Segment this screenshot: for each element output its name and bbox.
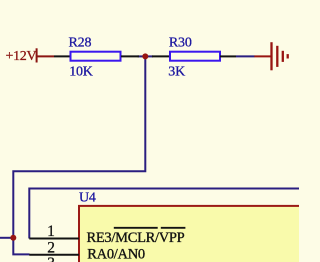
svg-text:RE3/MCLR/VPP: RE3/MCLR/VPP — [87, 230, 185, 246]
overline MCLR — [114, 227, 158, 229]
ground bar 2 — [276, 46, 278, 67]
resistor R28 left pin — [54, 55, 71, 57]
IC pin 2 line — [29, 254, 79, 256]
svg-text:R30: R30 — [169, 35, 192, 50]
resistor R30 right pin — [220, 55, 236, 57]
junction dot top — [142, 53, 148, 59]
junction dot left — [10, 235, 16, 241]
resistor R30 body — [170, 52, 220, 61]
power port lead — [37, 55, 54, 57]
svg-text:3: 3 — [47, 255, 55, 262]
wire from junction down-left to pin 2 — [13, 56, 145, 254]
svg-text:RA0/AN0: RA0/AN0 — [87, 246, 145, 262]
svg-text:+12V: +12V — [6, 49, 37, 64]
wire R30 to ground — [236, 55, 255, 57]
svg-text:U4: U4 — [79, 191, 96, 206]
IC pin 1 line — [29, 238, 79, 240]
IC U4 body — [79, 206, 301, 262]
svg-text:10K: 10K — [69, 64, 93, 79]
wire to pin 1 (horizontal rail to right edge, drop at x=29) — [28, 189, 299, 239]
overline VPP — [161, 227, 186, 229]
svg-text:1: 1 — [47, 223, 55, 240]
wire segment at top junction — [138, 55, 154, 57]
ground bar 1 — [270, 42, 272, 70]
wire from left edge to junction node — [0, 237, 13, 239]
resistor R28 right pin — [121, 55, 139, 57]
ground bar 4 — [287, 54, 289, 58]
resistor R30 left pin — [152, 55, 170, 57]
ground bar 3 — [282, 51, 284, 62]
ground lead — [254, 55, 270, 57]
power port bar — [36, 48, 38, 62]
svg-text:3K: 3K — [168, 64, 185, 79]
svg-text:R28: R28 — [69, 35, 92, 50]
resistor R28 body — [71, 52, 121, 61]
